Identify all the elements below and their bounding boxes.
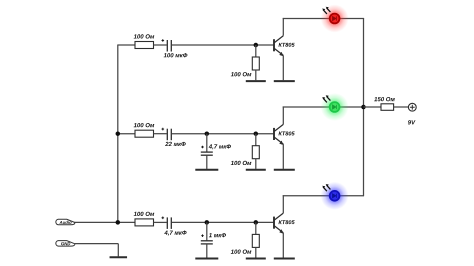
capacitor C3 4,7 мкФ (shunt to ground) <box>206 134 208 152</box>
wire R5 to C4 <box>154 221 167 223</box>
resistor R3 100 Ом (series) <box>135 130 154 137</box>
wire collector rail to LED D1 <box>283 18 364 20</box>
junction node at C3 <box>205 131 210 136</box>
label C1 value 100 мкФ <box>164 53 188 57</box>
polarity mark + of C4 <box>162 217 165 220</box>
wire C1 to base node of Q1 <box>172 44 274 46</box>
wire GND connector to ground <box>75 243 119 245</box>
label C3 value 4,7 мкФ <box>209 144 231 149</box>
node IN : left input bus <box>117 44 119 222</box>
label BT1 value 9V <box>408 120 416 124</box>
polarity mark + of C5 <box>201 234 204 237</box>
capacitor C1 100 мкФ (series, polarized) <box>166 40 168 52</box>
ground of C3 <box>195 169 218 171</box>
ground of C5 <box>195 258 218 260</box>
wire collector rail to LED D3 <box>283 195 364 197</box>
junction node base of Q3 <box>254 220 258 225</box>
resistor R5 100 Ом (series) <box>135 219 154 226</box>
label C4 value 4,7 мкФ <box>164 231 186 236</box>
label J2 GND <box>61 242 70 245</box>
junction node supply bus to battery <box>361 105 366 110</box>
label R7 value 150 Ом <box>374 97 395 101</box>
junction node at C5 <box>205 220 210 225</box>
ground of J2 <box>110 256 128 258</box>
label Q2 type КТ805 <box>279 131 295 135</box>
polarity mark + of C1 <box>162 39 165 42</box>
ground of R6 <box>246 258 266 260</box>
wire C4 to base node of Q3 <box>172 221 274 223</box>
label R4 value 100 Ом <box>231 161 252 165</box>
wire emitter of Q3 to ground <box>282 233 284 258</box>
connector J2 GND <box>56 241 75 247</box>
resistor R7 150 Ом <box>381 104 394 111</box>
label Q3 type КТ805 <box>279 220 295 224</box>
ground of Q2 emitter <box>274 169 295 171</box>
junction node base of Q2 <box>254 131 258 136</box>
wire R7 to battery terminal <box>394 106 409 108</box>
transistor Q1 КТ805 (NPN) <box>274 36 283 56</box>
resistor R4 100 Ом (base to ground) <box>255 134 257 146</box>
resistor R6 100 Ом (base to ground) <box>255 222 257 234</box>
ground of R2 <box>246 80 266 82</box>
wire collector of Q2 up <box>282 106 284 124</box>
resistor R2 100 Ом (base to ground) <box>255 45 257 57</box>
label J1 Audio <box>59 221 71 224</box>
LED D1 red <box>321 5 349 33</box>
resistor R1 100 Ом (series) <box>135 42 154 49</box>
LED D2 green <box>321 93 349 121</box>
capacitor C5 1 мкФ (shunt to ground) <box>206 222 208 240</box>
capacitor C2 22 мкФ (series, polarized) <box>166 129 168 141</box>
connector J1 Audio <box>56 219 75 225</box>
node V+ : right collector supply bus <box>363 18 365 196</box>
label C2 value 22 мкФ <box>165 142 186 146</box>
wire emitter of Q2 to ground <box>282 144 284 169</box>
ground of Q3 emitter <box>274 258 295 260</box>
junction node base of Q1 <box>254 43 258 48</box>
LED D3 blue <box>321 182 349 210</box>
battery terminal BT1 +9V <box>408 103 416 111</box>
light emission arrows of D2 <box>322 95 330 102</box>
light emission arrows of D1 <box>322 7 330 14</box>
wire bus to R3 <box>118 133 135 135</box>
wire R1 to C1 <box>154 44 167 46</box>
ground of R4 <box>246 169 266 171</box>
wire supply bus to R7 <box>364 106 382 108</box>
junction node bus row3 <box>116 220 121 225</box>
junction node bus row2 <box>116 131 121 136</box>
wire Audio input to R5 <box>75 221 136 223</box>
label R1 value 100 Ом <box>134 34 155 38</box>
polarity mark + of C3 <box>201 146 204 149</box>
wire C2 to base node of Q2 <box>172 133 274 135</box>
label R5 value 100 Ом <box>134 212 155 216</box>
label Q1 type КТ805 <box>279 43 295 47</box>
wire collector of Q3 up <box>282 195 284 213</box>
transistor Q3 КТ805 (NPN) <box>274 213 283 233</box>
ground of Q1 emitter <box>274 80 295 82</box>
label C5 value 1 мкФ <box>209 233 226 237</box>
capacitor C4 4,7 мкФ (series, polarized) <box>166 217 168 229</box>
wire bus to R1 <box>118 44 135 46</box>
transistor Q2 КТ805 (NPN) <box>274 124 283 144</box>
light emission arrows of D3 <box>322 184 330 191</box>
wire collector rail to LED D2 <box>283 106 364 108</box>
polarity mark + of C2 <box>162 128 165 131</box>
wire collector of Q1 up <box>282 18 284 36</box>
wire emitter of Q1 to ground <box>282 55 284 80</box>
label R3 value 100 Ом <box>134 123 155 127</box>
label R6 value 100 Ом <box>231 250 252 254</box>
label R2 value 100 Ом <box>231 72 252 76</box>
wire R3 to C2 <box>154 133 167 135</box>
